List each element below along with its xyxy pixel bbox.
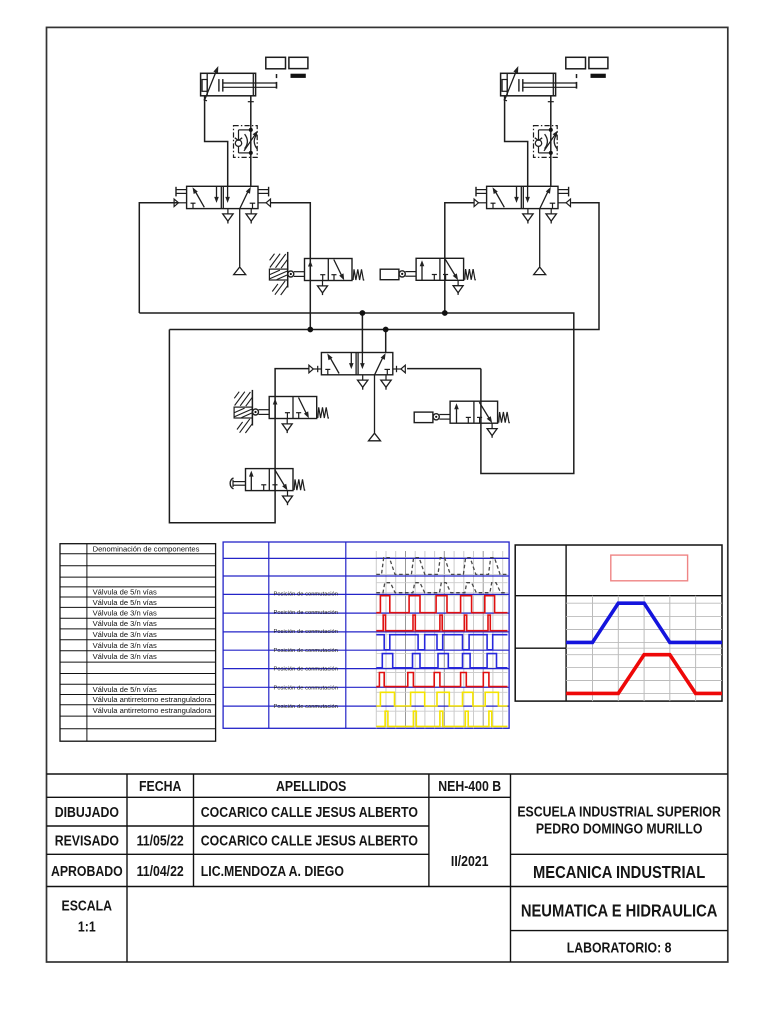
valve S2 (3/2-way plunger roller, top right) [380, 258, 476, 295]
wire lower-left loop through S5/S3 to valve V5 left pilot [169, 330, 310, 523]
svg-text:Posición de conmutación: Posición de conmutación [274, 592, 338, 598]
svg-text:COCARICO CALLE JESUS ALBERTO: COCARICO CALLE JESUS ALBERTO [201, 804, 418, 820]
cylinder B state indicator boxes [566, 57, 608, 78]
svg-text:Válvula de 5/n vías: Válvula de 5/n vías [93, 685, 157, 694]
wire lower bus junction to valve V5 port 2 [385, 330, 387, 353]
component list table grid [60, 544, 216, 742]
wire V5 right pilot [407, 368, 481, 370]
svg-text:Posición de conmutación: Posición de conmutación [274, 667, 338, 673]
svg-text:LIC.MENDOZA A. DIEGO: LIC.MENDOZA A. DIEGO [201, 863, 344, 879]
svg-text:LABORATORIO: 8: LABORATORIO: 8 [567, 939, 672, 955]
wire V2 right pilot down through valve S1 to lower bus [271, 203, 310, 330]
svg-text:Válvula de 3/n vías: Válvula de 3/n vías [93, 619, 157, 628]
svg-text:Válvula de 5/n vías: Válvula de 5/n vías [93, 598, 157, 607]
junction dot lower bus / S1 line [307, 327, 313, 333]
cylinder B rod-end tick [576, 74, 578, 78]
phase diagram blue trapezoid [566, 603, 722, 642]
svg-text:APELLIDOS: APELLIDOS [276, 778, 346, 794]
timing table outer grid (blue) [223, 542, 509, 728]
flow control valve V3 (one-way throttle) [534, 126, 558, 158]
trace 9 (yellow spikes) [376, 711, 507, 726]
trace 5 (blue, notched) [376, 635, 507, 650]
svg-text:Válvula antirretorno estrangul: Válvula antirretorno estranguladora [93, 706, 212, 715]
svg-text:APROBADO: APROBADO [51, 863, 123, 879]
trace 8 (yellow square wave) [376, 692, 507, 706]
svg-text:FECHA: FECHA [139, 778, 181, 794]
wire cylinder B right port through V3 to valve V4 port 2 [548, 96, 554, 187]
title block grid [47, 774, 728, 962]
trace 4 (red spikes) [376, 615, 507, 631]
svg-text:MECANICA INDUSTRIAL: MECANICA INDUSTRIAL [533, 863, 705, 883]
svg-text:Posición de conmutación: Posición de conmutación [274, 648, 338, 654]
cylinder A state indicator boxes [266, 57, 308, 78]
lower bus wire [169, 203, 599, 330]
svg-text:Posición de conmutación: Posición de conmutación [274, 704, 338, 710]
wire V4 left pilot down through valve S2 to upper bus [445, 203, 474, 313]
svg-text:NEUMATICA E HIDRAULICA: NEUMATICA E HIDRAULICA [521, 901, 718, 921]
phase diagram red trapezoid [566, 655, 722, 694]
valve S5 (3/2-way push button, bottom) [230, 469, 305, 506]
cylinder B (double-acting, adjustable cushioning) [501, 66, 577, 101]
valve S3 (3/2-way roller with cam, bottom left) [234, 390, 329, 433]
valve V4 (5/2-way, air pilot both sides) [474, 186, 570, 274]
phase table grey grid [566, 596, 722, 701]
svg-text:Válvula de 3/n vías: Válvula de 3/n vías [93, 641, 157, 650]
svg-text:1:1: 1:1 [78, 918, 96, 934]
svg-text:DIBUJADO: DIBUJADO [55, 804, 119, 820]
timing table row labels [274, 592, 338, 711]
cylinder A (double-acting, adjustable cushioning) [201, 66, 277, 101]
wire cylinder A right port through V1 to valve V2 port 2 [248, 96, 254, 187]
svg-text:ESCUELA INDUSTRIAL SUPERIOR: ESCUELA INDUSTRIAL SUPERIOR [517, 803, 721, 819]
svg-text:Válvula de 3/n vías: Válvula de 3/n vías [93, 608, 157, 617]
svg-text:Válvula de 3/n vías: Válvula de 3/n vías [93, 630, 157, 639]
wire V2 left pilot to upper bus [139, 203, 178, 313]
svg-text:Denominación de componentes: Denominación de componentes [93, 544, 200, 553]
wire upper bus junction to valve V5 port 4 [361, 313, 363, 353]
upper bus wire [139, 313, 574, 474]
wire cylinder A left port to valve V2 port 4 [205, 96, 228, 187]
svg-text:Posición de conmutación: Posición de conmutación [274, 629, 338, 635]
cylinder A rod-end tick [276, 74, 278, 78]
svg-text:REVISADO: REVISADO [55, 832, 119, 848]
flow control valve V1 (one-way throttle) [234, 126, 258, 158]
svg-text:Válvula de 5/n vías: Válvula de 5/n vías [93, 588, 157, 597]
trace 1 (cylinder A position, dashed) [376, 558, 507, 575]
trace 2 (cylinder B position, dashed) [376, 583, 507, 593]
junction dot upper bus / V5 port 4 [360, 310, 366, 316]
wire cylinder B left port to valve V4 port 4 [505, 96, 528, 187]
valve S4 (3/2-way plunger roller, mid right) [414, 401, 510, 438]
junction dot upper bus / S2 line [442, 310, 448, 316]
svg-text:11/05/22: 11/05/22 [137, 832, 184, 848]
svg-text:Válvula antirretorno estrangul: Válvula antirretorno estranguladora [93, 695, 212, 704]
valve V2 (5/2-way, air pilot both sides) [174, 186, 270, 274]
valve V5 (5/2-way, air pilot both sides, center) [309, 353, 405, 441]
svg-text:PEDRO DOMINGO MURILLO: PEDRO DOMINGO MURILLO [536, 820, 703, 836]
svg-text:Posición de conmutación: Posición de conmutación [274, 685, 338, 691]
svg-text:Posición de conmutación: Posición de conmutación [274, 610, 338, 616]
component list table labels [93, 544, 212, 715]
svg-text:COCARICO CALLE JESUS ALBERTO: COCARICO CALLE JESUS ALBERTO [201, 832, 418, 848]
timing grid (grey) [376, 551, 507, 728]
valve S1 (3/2-way roller with cam, top left) [269, 252, 364, 295]
title block labels [51, 778, 721, 956]
svg-text:ESCALA: ESCALA [62, 897, 113, 913]
svg-text:NEH-400 B: NEH-400 B [438, 778, 501, 794]
phase table grid [515, 545, 722, 701]
phase diagram red indicator rectangle [611, 555, 688, 581]
svg-text:Válvula de 3/n vías: Válvula de 3/n vías [93, 652, 157, 661]
trace 6 (blue square wave) [376, 654, 507, 668]
timing table row lines (blue) [223, 558, 509, 706]
svg-text:11/04/22: 11/04/22 [137, 863, 184, 879]
junction dot lower bus / V5 port 2 [383, 327, 389, 333]
svg-text:II/2021: II/2021 [451, 853, 489, 869]
trace 3 (red square wave) [376, 596, 507, 613]
trace 7 (red square wave) [376, 673, 507, 687]
